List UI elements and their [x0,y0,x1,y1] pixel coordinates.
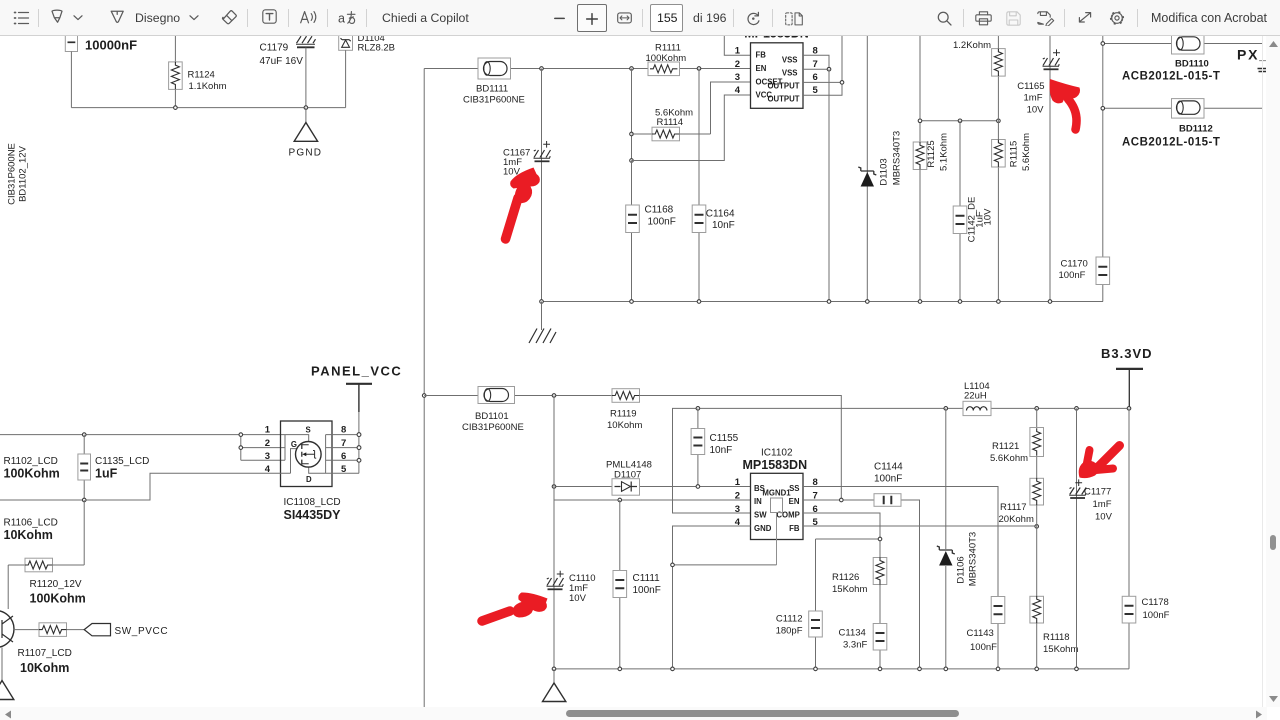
svg-text:EN: EN [789,497,800,506]
node junction rail/C1134 [878,667,882,671]
node junction PX wire 2 [1101,107,1105,111]
svg-text:MBRS340T3: MBRS340T3 [968,532,979,586]
svg-text:5: 5 [341,464,347,475]
node junction FB/R1117 [1035,525,1039,529]
svg-text:100Kohm: 100Kohm [4,467,60,481]
wire GND pin loop [673,526,777,669]
node junction BS/C1155 [696,485,700,489]
node junction COMP/R1126 [878,537,882,541]
node junction rail/R1118 [1035,667,1039,671]
label R1106_LCD 10Kohm [4,518,58,543]
svg-text:R1117: R1117 [1000,502,1027,513]
svg-text:R1106_LCD: R1106_LCD [4,518,58,529]
wire gate row [0,473,281,500]
wire FB row [803,525,1037,527]
node junction C1110 column/feed [552,394,556,398]
wire VSS to ground rail [828,69,830,301]
inductor L1104 22uH [963,381,991,416]
svg-text:10000nF: 10000nF [85,38,137,53]
svg-text:G: G [291,440,297,449]
node junction rail/C1143 [996,667,1000,671]
capacitor C1110 1mF 10V (electrolytic) [547,571,596,604]
node junction SW/D1106 [944,407,948,411]
wire PX output 2 [1103,107,1263,109]
svg-text:3: 3 [735,72,740,83]
svg-text:10Kohm: 10Kohm [607,420,642,431]
pin number 2 (IC1102) [735,490,740,501]
svg-text:C1134: C1134 [839,628,866,639]
svg-text:2: 2 [265,438,270,449]
svg-text:FB: FB [756,51,767,60]
svg-text:C1179: C1179 [260,43,289,54]
svg-text:R1125: R1125 [926,140,937,167]
ferrite bead BD1110 ACB2012L-015-T [1122,35,1220,83]
wire EN row [803,500,920,669]
node junction PX wire 1 [1101,42,1105,46]
svg-text:OUTPUT: OUTPUT [767,82,799,91]
node junction rail/C1110 [552,667,556,671]
transistor IC1108_LCD SI4435DY (P-MOSFET) [281,421,360,522]
node junction pins1-2 tie [239,433,243,437]
wire C1179 to rail [305,48,307,108]
resistor R1115 5.6Kohm [992,121,1032,302]
node junction C1167 branch [540,67,544,71]
svg-text:BD1101: BD1101 [475,411,509,422]
svg-text:10V: 10V [983,208,994,226]
node junction VSS tie [827,67,831,71]
capacitor C1168 100nF [626,161,676,302]
svg-text:R1107_LCD: R1107_LCD [18,648,72,659]
svg-text:1mF: 1mF [1024,93,1043,104]
wire PX output 1 [1103,43,1263,45]
transistor Q1102 (cut at left edge) [0,611,39,648]
svg-text:15Kohm: 15Kohm [832,584,867,595]
net label B3.3VD [1101,346,1153,408]
annotation red arrow 4 (points to C1177) [1079,446,1120,479]
pin number 4 (IC1102) [735,517,741,528]
capacitor C1155 10nF [691,408,739,486]
svg-text:a: a [338,11,345,25]
svg-text:R1126: R1126 [832,572,859,583]
wire VCC branch to pin4 [632,95,751,161]
svg-text:D: D [306,475,312,484]
node junction C1165/rail [1048,300,1052,304]
svg-text:MP1583DN: MP1583DN [743,458,808,472]
svg-text:COMP: COMP [776,511,799,520]
node terminal pin6 [357,458,361,462]
pin number 5 (IC1102) [813,517,819,528]
svg-text:180pF: 180pF [776,626,803,637]
capacitor C1134 3.3nF [839,585,887,669]
svg-text:100Kohm: 100Kohm [30,592,86,606]
svg-text:100Kohm: 100Kohm [646,53,687,64]
svg-text:MBRS340T3: MBRS340T3 [892,131,903,185]
capacitor C1179 47uF 16V (electrolytic, cut at top) [260,36,316,67]
node terminal pin8 [357,433,361,437]
svg-text:5.6Kohm: 5.6Kohm [990,453,1028,464]
svg-text:10V: 10V [569,593,587,604]
wire C1110 column vertical [553,396,555,669]
node junction C1142/rail [958,300,962,304]
node junction EN/R1119 feed [840,498,844,502]
capacitor C1165 1mF 10V (electrolytic) [1017,49,1060,115]
label R1102_LCD 100Kohm [4,456,60,481]
svg-text:10nF: 10nF [710,445,733,456]
svg-text:D1106: D1106 [956,556,967,583]
capacitor C1164 10nF [692,69,735,302]
pin number 5 (U1101) [813,85,819,96]
pin number 7 (IC1108) [341,438,346,449]
pin number 3 (U1101) [735,72,740,83]
svg-text:C1112: C1112 [776,614,803,625]
svg-text:5.6Kohm: 5.6Kohm [1021,133,1032,171]
resistor R1126 15Kohm [832,557,887,595]
node junction IN/C1111 [618,498,622,502]
annotation red arrow 3 (points to C1110) [482,592,548,621]
wire lower feed rail [424,396,841,501]
svg-text:7: 7 [341,438,346,449]
node junction connector/R1125 [918,119,922,123]
node junction R1124/rail [174,106,178,110]
svg-text:VSS: VSS [782,55,798,64]
svg-text:10Kohm: 10Kohm [20,661,69,675]
svg-text:2: 2 [735,59,740,70]
node junction rail/C1164 [697,300,701,304]
svg-text:1uF: 1uF [95,467,118,481]
svg-text:10V: 10V [1027,105,1045,116]
capacitor C1142_DE 1uF 10V [953,121,993,302]
wire left vertical bus [423,69,425,708]
svg-text:ACB2012L-015-T: ACB2012L-015-T [1122,137,1220,149]
svg-text:10V: 10V [1095,512,1113,523]
svg-text:C1135_LCD: C1135_LCD [95,456,149,467]
svg-text:10Kohm: 10Kohm [4,528,53,542]
svg-text:100nF: 100nF [1143,610,1170,621]
capacitor C1135_LCD 1uF [78,435,149,500]
resistor R1107_LCD 10Kohm [18,623,72,675]
svg-text:1.1Kohm: 1.1Kohm [189,81,227,92]
page right edge [1262,36,1264,707]
svg-text:1: 1 [735,46,741,57]
resistor R1116 1.2Kohm [953,36,1005,121]
node junction left bus / lower feed [422,394,426,398]
node junction VCC branch [630,159,634,163]
wire R1114 to pin3 OCSET [711,82,751,134]
svg-text:7: 7 [813,59,818,70]
capacitor C1180 10000nF (cut at top) [65,30,137,53]
wire pin1 FB up [724,36,750,55]
node terminal pin7 [357,446,361,450]
pin number 1 (IC1108) [265,425,271,436]
svg-text:1mF: 1mF [1093,499,1112,510]
wire COMP branch [803,513,880,611]
resistor R1118 15Kohm [1030,596,1079,669]
svg-text:R1114: R1114 [657,117,684,128]
svg-text:1: 1 [265,425,271,436]
resistor R1121 5.6Kohm [990,408,1044,464]
node junction connector/C1142 [958,119,962,123]
svg-text:6: 6 [341,451,346,462]
pin number 6 (IC1102) [813,504,818,515]
svg-text:CIB31P600NE: CIB31P600NE [463,95,525,106]
node junction C1135 bottom [82,498,86,502]
capacitor C1111 100nF [613,500,661,669]
wire lower ground rail [554,668,1129,670]
node junction R1121 column/output [1035,407,1039,411]
svg-text:R1118: R1118 [1043,632,1070,643]
svg-text:BD1111: BD1111 [476,84,508,95]
op-amp U1101 buck regulator MP1583DN (name cut by toolbar) [744,27,809,109]
pin number 7 (IC1102) [813,490,818,501]
wire BS row [554,486,751,488]
svg-text:ACB2012L-015-T: ACB2012L-015-T [1122,71,1220,83]
pin number 2 (IC1108) [265,438,270,449]
capacitor C1167 1mF 10V (electrolytic) [503,141,551,178]
node junction BS/C1110 column [552,485,556,489]
wire D1104 to rail end [345,50,347,107]
svg-text:1: 1 [735,477,741,488]
resistor R1117 20Kohm [999,457,1044,597]
svg-text:PX_: PX_ [1237,47,1269,63]
capacitor C1178 100nF [1122,408,1169,669]
annotation red arrow 1 (points to C1167) [506,168,540,240]
wire C1177 column vertical [1076,408,1078,669]
diode D1107 PMLL4148 [606,460,652,496]
capacitor C1177 1mF 10V (electrolytic) [1069,479,1112,522]
svg-text:C1164: C1164 [706,209,735,220]
node junction rail/C1168 [630,300,634,304]
svg-text:IN: IN [754,497,762,506]
svg-text:10nF: 10nF [712,220,735,231]
resistor R1111 100Kohm [646,43,687,76]
svg-text:15Kohm: 15Kohm [1043,644,1078,655]
connector SW_PVCC [67,624,169,638]
pin number 4 (U1101) [735,85,741,96]
net label PX_ (cut at right) [1237,47,1269,72]
svg-text:CIB31P600NE: CIB31P600NE [462,422,524,433]
svg-text:100nF: 100nF [1059,270,1086,281]
svg-text:R1102_LCD: R1102_LCD [4,456,58,467]
net label PANEL_VCC [311,364,402,474]
node junction D1103/rail [866,300,870,304]
svg-text:20Kohm: 20Kohm [999,514,1034,525]
resistor R1120_12V 100Kohm [8,500,86,609]
node junction C1177 column/output [1075,407,1079,411]
svg-text:3: 3 [735,504,740,515]
pin number 6 (IC1108) [341,451,346,462]
wire C1167 vertical [541,69,543,302]
svg-text:8: 8 [341,425,346,436]
svg-text:CIB31P600NE: CIB31P600NE [7,143,18,205]
pin number 6 (U1101) [813,72,818,83]
wire top 12V input rail [424,68,750,70]
wire source row (pins 1-3 tie) [0,435,285,461]
svg-text:C1177: C1177 [1084,487,1111,498]
node junction rail/C1111 [618,667,622,671]
svg-text:OUTPUT: OUTPUT [767,95,799,104]
svg-text:100nF: 100nF [648,217,676,228]
resistor R1119 10Kohm [607,389,642,431]
pin number 3 (IC1102) [735,504,740,515]
capacitor C1144 100nF [874,462,903,507]
svg-text:R1115: R1115 [1009,141,1020,168]
wire bias connector [920,120,998,122]
node junction rail/C1167 [540,300,544,304]
svg-text:SI4435DY: SI4435DY [284,508,342,522]
pin number 5 (IC1108) [341,464,347,475]
pin number 8 (IC1102) [813,477,818,488]
node junction rail/VSS [827,300,831,304]
svg-text:5: 5 [813,85,819,96]
resistor R1125 5.1Kohm [913,36,949,302]
pin number 1 (IC1102) [735,477,741,488]
svg-text:BD1102_12V: BD1102_12V [18,145,29,201]
svg-text:EN: EN [756,64,767,73]
wire OUTPUT pins 6/5 tie [803,36,842,95]
svg-text:FB: FB [789,524,800,533]
annotation red arrow 2 (points to C1165) [1050,79,1080,130]
svg-text:R1124: R1124 [188,70,215,81]
svg-text:IC1102: IC1102 [761,448,793,459]
node junction rail/GND pin [671,667,675,671]
pin number 1 (U1101) [735,46,741,57]
svg-text:RLZ8.2B: RLZ8.2B [358,43,396,54]
svg-text:100nF: 100nF [633,585,661,596]
svg-text:SW_PVCC: SW_PVCC [115,626,169,637]
ferrite bead BD1111 CIB31P600NE [463,58,525,106]
node junction GND loop [671,563,675,567]
svg-text:GND: GND [754,524,772,533]
svg-text:4: 4 [735,85,741,96]
svg-text:R1121: R1121 [992,441,1019,452]
wire SW node to L1104 [673,408,1130,513]
pin number 2 (U1101) [735,59,740,70]
node junction C1164 column [697,67,701,71]
svg-text:C1111: C1111 [633,573,661,584]
wire VSS pins 8/7 tie [803,55,829,69]
svg-text:PANEL_VCC: PANEL_VCC [311,364,402,379]
svg-text:B3.3VD: B3.3VD [1101,346,1153,361]
svg-text:C1178: C1178 [1142,597,1169,608]
node junction C1135 top [82,433,86,437]
node junction rail/C1177 [1075,667,1079,671]
wire IN row [554,499,751,501]
svg-text:100nF: 100nF [874,474,902,485]
svg-text:C1143: C1143 [967,628,994,639]
node junction rail/C1144 leg [918,667,922,671]
wire PGND rail [71,107,345,109]
diode D1103 MBRS340T3 (schottky) [858,36,902,302]
node junction C1179/rail [304,106,308,110]
capacitor C1170 100nF [1059,257,1110,302]
net label CIB31P600NE BD1102_12V (rotated) [7,143,29,205]
ferrite bead BD1112 ACB2012L-015-T [1122,99,1220,149]
svg-text:MGND1: MGND1 [762,489,791,498]
svg-text:R1119: R1119 [610,409,637,420]
svg-text:PGND: PGND [289,148,323,159]
node junction rail/D1106 [944,667,948,671]
pin number 4 (IC1108) [265,464,271,475]
diode D1106 MBRS340T3 (schottky) [937,408,979,669]
wire C1180 to PGND rail [70,52,72,108]
ground triangle (cut, bottom left) [0,648,14,700]
svg-text:D1103: D1103 [879,158,890,185]
ground (hatched) below C1167 [529,302,556,344]
svg-text:5.1Kohm: 5.1Kohm [939,133,950,171]
node junction SW/C1155 [696,407,700,411]
ground triangle lower [543,669,566,702]
pin number 7 (U1101) [813,59,818,70]
resistor R1114 5.6Kohm [632,108,711,141]
svg-text:R1111: R1111 [655,43,681,54]
svg-text:C1165: C1165 [1017,81,1044,92]
capacitor C1112 180pF [776,611,823,669]
wire MGND pad stem [776,513,778,565]
node junction connector/R1115 [997,119,1001,123]
svg-text:22uH: 22uH [964,391,987,402]
pin number 8 (U1101) [813,46,818,57]
pin number 8 (IC1108) [341,425,346,436]
ground PGND [289,108,323,159]
svg-text:R1120_12V: R1120_12V [30,579,82,590]
wire 12V distribution vertical [1102,36,1104,257]
node junction B3.3VD stem/output [1127,407,1131,411]
svg-text:SW: SW [754,511,767,520]
svg-text:SS: SS [789,484,799,493]
wire upper ground rail [542,301,1104,303]
svg-text:2: 2 [735,490,740,501]
diode D1104 RLZ8.2B (zener, cut at top) [339,31,395,54]
svg-text:100nF: 100nF [970,642,997,653]
svg-text:VSS: VSS [782,69,798,78]
svg-text:6: 6 [813,72,818,83]
node junction R1114 left [630,132,634,136]
ferrite bead BD1101 CIB31P600NE [462,387,524,434]
op-amp IC1102 buck regulator MP1583DN [743,448,808,540]
svg-text:BD1112: BD1112 [1179,124,1213,135]
svg-text:47uF 16V: 47uF 16V [260,56,304,67]
svg-text:S: S [306,426,311,435]
node junction OUTPUT tie [840,81,844,85]
resistor R1124 1.1Kohm [169,36,227,108]
wire R1114 column vertical [631,69,633,206]
node junction R1114 column [630,67,634,71]
svg-text:C1155: C1155 [710,433,739,444]
svg-text:C1144: C1144 [874,462,903,473]
svg-text:D1107: D1107 [614,470,641,481]
svg-text:C1170: C1170 [1061,259,1088,270]
node junction R1125/rail [918,300,922,304]
svg-text:1.2Kohm: 1.2Kohm [953,40,991,51]
wire C1165 vertical (12V output) [1049,36,1051,302]
svg-text:3: 3 [265,451,270,462]
svg-text:BD1110: BD1110 [1175,59,1209,70]
node junction R1115/rail [997,300,1001,304]
node junction rail/C1112 [814,667,818,671]
svg-text:IC1108_LCD: IC1108_LCD [284,497,341,508]
svg-text:3.3nF: 3.3nF [843,640,867,651]
capacitor C1143 100nF [967,597,1005,669]
pin number 3 (IC1108) [265,451,270,462]
node junction pins2-3 tie [239,446,243,450]
wire SS row to C1143 [803,487,998,597]
svg-text:C1168: C1168 [645,205,674,216]
